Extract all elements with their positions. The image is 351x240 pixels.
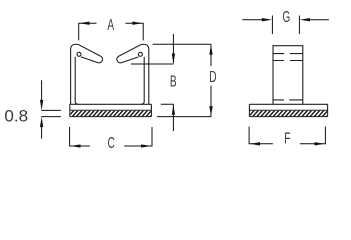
svg-text:G: G (282, 8, 290, 26)
svg-text:D: D (209, 68, 216, 86)
svg-text:0.8: 0.8 (4, 107, 28, 126)
svg-text:C: C (108, 134, 115, 152)
svg-text:A: A (107, 16, 114, 34)
svg-text:F: F (284, 130, 290, 148)
svg-text:B: B (170, 72, 177, 90)
